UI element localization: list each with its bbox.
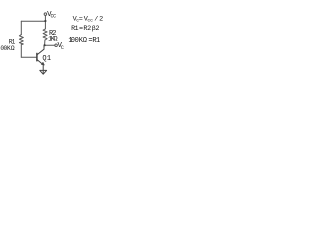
resistor R1	[19, 35, 23, 45]
svg-text:=: =	[79, 16, 83, 24]
formula line 3: 100K(ohm)=R1	[68, 37, 100, 45]
svg-text:/: /	[94, 16, 98, 24]
label 100K ohm	[0, 45, 15, 52]
wire R2 to junction	[44, 40, 46, 45]
wire vcc drop	[44, 15, 46, 29]
node Vc circle	[55, 44, 58, 47]
junction dot top	[44, 20, 46, 22]
svg-text:Ω: Ω	[11, 45, 15, 52]
transistor Q1 base bar	[36, 53, 38, 60]
junction dot Vc	[44, 44, 46, 46]
svg-text:Ω: Ω	[83, 37, 87, 45]
svg-text:C: C	[61, 45, 64, 51]
wire left vertical upper	[20, 21, 22, 34]
svg-text:c: c	[90, 18, 93, 23]
wire junction to VC circle	[45, 44, 55, 46]
svg-text:2: 2	[99, 16, 103, 24]
wire base lead	[21, 56, 37, 58]
ground	[40, 70, 47, 74]
svg-text:C: C	[53, 14, 56, 20]
svg-text:2: 2	[87, 25, 91, 33]
svg-text:1: 1	[75, 25, 79, 33]
resistor R2	[43, 29, 47, 40]
svg-text:2: 2	[95, 25, 99, 33]
transistor Q1 emitter arrow	[41, 62, 44, 65]
wire top horizontal	[21, 20, 45, 22]
wire left vertical lower	[20, 45, 22, 58]
formula line 1: Vc=Vcc/2	[73, 16, 104, 24]
wire emitter to ground	[42, 65, 44, 74]
formula line 2: R1=R2(beta)2	[71, 25, 99, 33]
svg-text:1: 1	[47, 55, 51, 63]
node Vcc circle	[44, 13, 47, 16]
transistor Q1 collector	[37, 45, 44, 55]
svg-text:1: 1	[96, 37, 100, 45]
transistor Q1 emitter	[37, 60, 44, 65]
